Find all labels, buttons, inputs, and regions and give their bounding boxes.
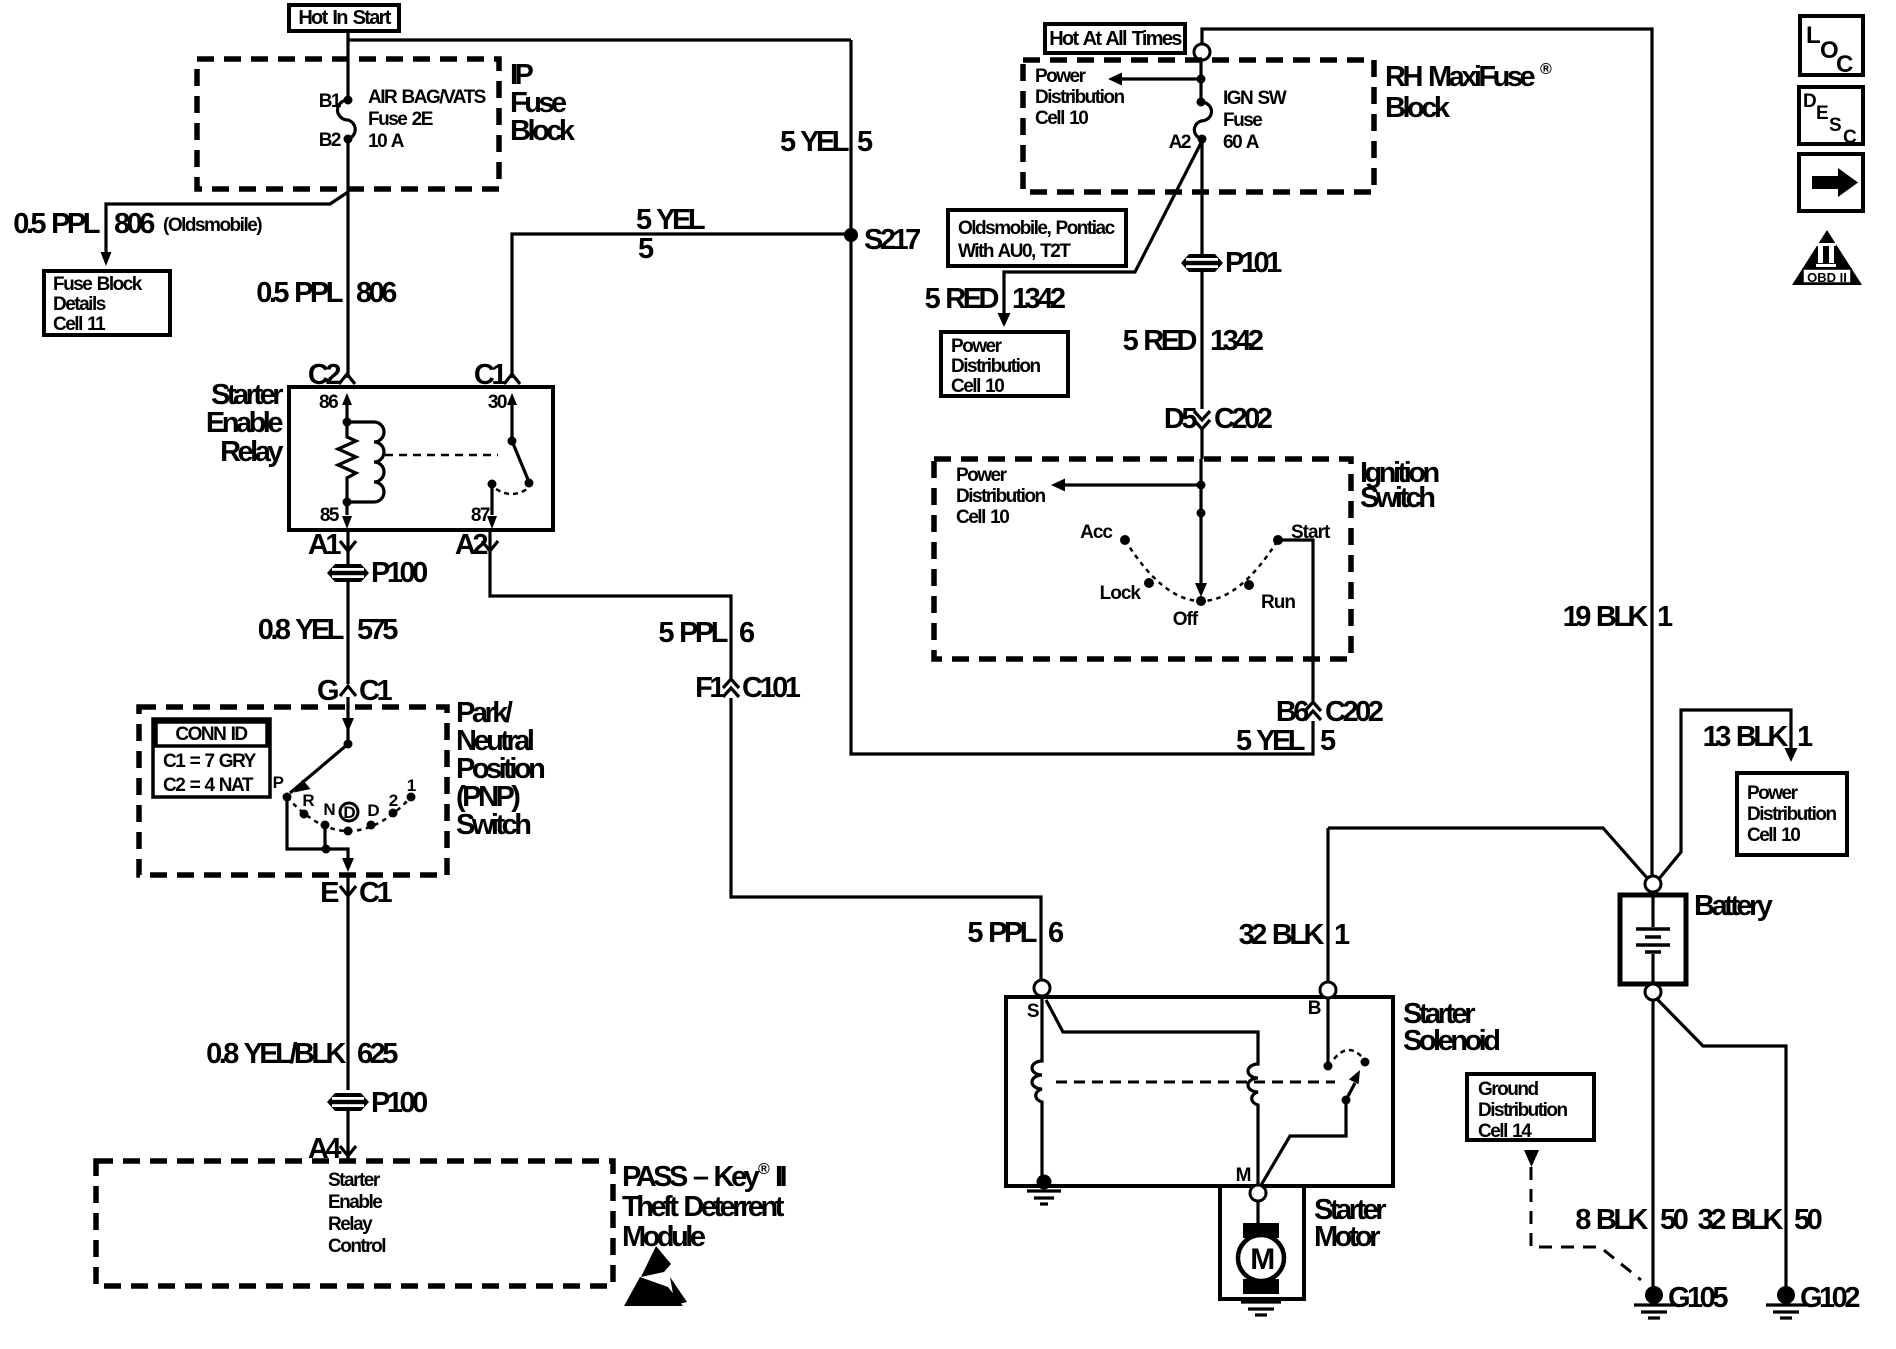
node Fuse Block Details Cell 11 box xyxy=(44,271,170,335)
relay pin 87 arrow xyxy=(471,480,497,530)
wire label 5 PPL 6 upper xyxy=(658,617,755,649)
wire arrow to power distribution (ignition) xyxy=(1051,479,1206,492)
terminal circle at maxifuse xyxy=(1194,44,1210,60)
relay coil xyxy=(347,422,384,502)
svg-text:OBD II: OBD II xyxy=(1807,270,1847,285)
svg-text:0.5 PPL: 0.5 PPL xyxy=(256,277,343,309)
label RH MaxiFuse Block xyxy=(1385,61,1552,124)
wire 5 YEL vertical drop to S217 xyxy=(849,40,852,235)
svg-text:Cell 11: Cell 11 xyxy=(53,314,106,335)
wire label 5 PPL 6 lower xyxy=(967,917,1064,949)
wire top horizontal Hot In Start to 5 YEL drop xyxy=(348,38,851,41)
label PASS-Key II Theft Deterrent Module xyxy=(622,1161,787,1253)
svg-text:C1: C1 xyxy=(359,877,392,909)
wire top right to 19 BLK drop xyxy=(1202,29,1652,876)
wire circle to IGN SW fuse xyxy=(1199,60,1202,102)
svg-text:5 YEL: 5 YEL xyxy=(1236,725,1305,757)
terminal M xyxy=(1236,1165,1266,1201)
icon LOC xyxy=(1800,16,1863,78)
svg-text:Starter: Starter xyxy=(328,1170,381,1191)
svg-text:85: 85 xyxy=(320,505,340,526)
svg-text:M: M xyxy=(1250,1243,1273,1276)
svg-text:S: S xyxy=(1829,115,1842,136)
svg-text:Battery: Battery xyxy=(1694,890,1773,922)
svg-text:IGN SW: IGN SW xyxy=(1223,88,1287,109)
label Starter Motor xyxy=(1314,1194,1386,1253)
svg-text:M: M xyxy=(1236,1165,1251,1186)
contact Acc xyxy=(1080,522,1130,545)
svg-text:13 BLK: 13 BLK xyxy=(1703,721,1789,753)
svg-text:Fuse Block: Fuse Block xyxy=(53,274,143,295)
svg-text:Distribution: Distribution xyxy=(1747,804,1836,825)
svg-text:Power: Power xyxy=(1747,783,1799,804)
svg-text:A1: A1 xyxy=(308,529,341,561)
svg-text:S217: S217 xyxy=(864,224,920,256)
wire 32 BLK solenoid B to battery xyxy=(1328,828,1648,879)
svg-text:D: D xyxy=(367,801,379,820)
svg-text:32 BLK: 32 BLK xyxy=(1239,919,1325,951)
svg-text:CONN ID: CONN ID xyxy=(175,724,247,745)
label Starter Solenoid xyxy=(1403,998,1499,1057)
relay dashed actuator link xyxy=(385,454,498,457)
terminal B xyxy=(1308,982,1336,1019)
wire label 5 YEL 5 horizontal xyxy=(636,204,705,265)
svg-text:0.5 PPL: 0.5 PPL xyxy=(13,208,100,240)
node Hot At All Times label box xyxy=(1045,24,1185,53)
svg-text:60 A: 60 A xyxy=(1223,132,1260,153)
node Ground Distribution Cell 14 box xyxy=(1467,1074,1594,1142)
Ignition switch dashed box xyxy=(934,459,1351,659)
svg-text:Hot In Start: Hot In Start xyxy=(298,7,391,29)
svg-text:Relay: Relay xyxy=(328,1214,373,1235)
contact Start xyxy=(1273,522,1331,545)
svg-text:G102: G102 xyxy=(1800,1282,1859,1314)
wire B2 down to relay C2 xyxy=(346,139,349,378)
svg-text:Cell 10: Cell 10 xyxy=(956,507,1009,528)
arrowhead 13 BLK xyxy=(1785,748,1798,762)
svg-text:5 YEL: 5 YEL xyxy=(636,204,705,236)
ground at solenoid coil xyxy=(1027,1191,1061,1204)
svg-text:Ground: Ground xyxy=(1478,1079,1538,1100)
wire label 5 YEL 5 (B6) xyxy=(1236,725,1336,757)
svg-text:C: C xyxy=(1836,51,1853,78)
svg-text:Power: Power xyxy=(1035,66,1087,87)
svg-text:50: 50 xyxy=(1660,1204,1688,1236)
PNP contact N xyxy=(321,800,336,830)
svg-text:Theft Deterrent: Theft Deterrent xyxy=(622,1191,785,1223)
svg-text:Solenoid: Solenoid xyxy=(1403,1025,1499,1057)
svg-text:30: 30 xyxy=(488,392,507,413)
svg-text:5 RED: 5 RED xyxy=(925,283,999,315)
ground at starter motor xyxy=(1241,1302,1281,1315)
label Park/Neutral Position (PNP) Switch xyxy=(456,697,544,841)
ESD symbol xyxy=(624,1246,687,1306)
label Starter Enable Relay Control xyxy=(328,1170,385,1257)
motor box xyxy=(1220,1186,1304,1299)
pin G C1 connector xyxy=(317,675,393,707)
svg-text:Lock: Lock xyxy=(1100,583,1142,604)
svg-text:P: P xyxy=(273,773,284,792)
wire A2 down right down to starter solenoid S xyxy=(490,530,1041,980)
svg-text:C1: C1 xyxy=(359,675,392,707)
svg-text:806: 806 xyxy=(114,208,155,240)
wire to A4 xyxy=(346,1110,349,1161)
value label IGN SW Fuse 60 A xyxy=(1223,88,1287,153)
connector F1 C101 xyxy=(695,672,801,704)
wire label 0.8 YEL/BLK 625 xyxy=(206,1038,398,1070)
PNP contact 2 xyxy=(389,791,398,818)
wire 13 BLK branch xyxy=(1658,710,1791,880)
svg-text:Control: Control xyxy=(328,1236,385,1257)
svg-text:Details: Details xyxy=(53,294,106,315)
svg-text:806: 806 xyxy=(356,277,397,309)
svg-text:Enable: Enable xyxy=(328,1192,382,1213)
svg-text:Power: Power xyxy=(951,336,1003,357)
svg-text:D: D xyxy=(1803,91,1817,112)
value label AIR BAG/VATS Fuse 2E 10 A xyxy=(368,87,486,152)
battery BAT1 xyxy=(1620,876,1686,1000)
PNP contact D xyxy=(367,801,380,830)
icon forward arrow xyxy=(1799,154,1863,211)
motor M xyxy=(1238,1201,1284,1294)
svg-text:575: 575 xyxy=(357,614,398,646)
wire label 19 BLK 1 xyxy=(1563,601,1673,633)
wire label 5 YEL 5 vertical top xyxy=(780,126,873,158)
svg-text:1: 1 xyxy=(407,776,416,795)
wire leader from A2 to 5 RED branch xyxy=(1004,141,1202,315)
svg-text:RH MaxiFuse: RH MaxiFuse xyxy=(1385,61,1535,93)
svg-text:Enable: Enable xyxy=(206,407,283,439)
icon OBD II triangle xyxy=(1792,230,1862,285)
wire label 0.8 YEL 575 xyxy=(258,614,399,646)
svg-text:PASS – Key: PASS – Key xyxy=(622,1161,760,1193)
pin A1 xyxy=(308,529,356,561)
svg-text:Relay: Relay xyxy=(220,436,283,468)
PNP switch arm wiper xyxy=(290,740,353,794)
dashed ground leader with arrowhead xyxy=(1524,1150,1641,1280)
svg-text:C101: C101 xyxy=(742,672,801,704)
wire label 5 RED 1342 xyxy=(1123,325,1263,357)
svg-text:®: ® xyxy=(1540,61,1552,78)
solenoid dashed plunger link xyxy=(1056,1081,1335,1084)
solenoid box xyxy=(1006,997,1393,1186)
wire label 0.5 PPL 806 xyxy=(256,277,397,309)
svg-text:32 BLK: 32 BLK xyxy=(1698,1204,1784,1236)
svg-text:S: S xyxy=(1027,1001,1039,1022)
ignition rotary contacts dashed arc xyxy=(1125,540,1278,601)
connector P100 upper xyxy=(327,557,427,589)
wire 5 RED 1342 down to D5 xyxy=(1200,271,1203,459)
solenoid switch arm with arrow xyxy=(1260,1070,1360,1187)
relay coil pin 86 arrow xyxy=(319,392,352,427)
svg-text:5 RED: 5 RED xyxy=(1123,325,1197,357)
svg-text:87: 87 xyxy=(471,505,490,526)
svg-text:G105: G105 xyxy=(1668,1282,1728,1314)
svg-text:8 BLK: 8 BLK xyxy=(1575,1204,1648,1236)
wire label 5 RED 1342 left xyxy=(925,283,1065,315)
svg-text:5 YEL: 5 YEL xyxy=(780,126,849,158)
wire label 32 BLK 50 xyxy=(1698,1204,1822,1236)
label Power Distribution Cell 10 (ignition) xyxy=(956,465,1045,528)
wire label 8 BLK 50 xyxy=(1575,1204,1687,1236)
relay pin 30 arrow xyxy=(488,392,517,446)
wire P contact to output xyxy=(287,797,354,872)
relay switch arm xyxy=(496,441,534,494)
wire arrow to power distribution xyxy=(1108,73,1206,86)
svg-text:Distribution: Distribution xyxy=(1478,1100,1567,1121)
wire 0.8 YEL 575 down to PNP G xyxy=(346,581,349,744)
svg-text:Run: Run xyxy=(1261,592,1295,613)
svg-text:B2: B2 xyxy=(319,130,341,151)
svg-text:19 BLK: 19 BLK xyxy=(1563,601,1649,633)
PNP contact R xyxy=(300,791,315,819)
wire S217 down and right to B6 xyxy=(851,235,1313,754)
pin C2 xyxy=(308,359,355,391)
svg-text:R: R xyxy=(302,791,314,810)
svg-text:C2: C2 xyxy=(308,359,340,391)
label Ignition Switch xyxy=(1360,457,1438,514)
svg-text:Cell 10: Cell 10 xyxy=(1035,108,1088,129)
PASS-Key module dashed box xyxy=(96,1161,613,1286)
svg-text:C1 = 7 GRY: C1 = 7 GRY xyxy=(163,751,257,772)
svg-text:Switch: Switch xyxy=(456,809,530,841)
svg-text:N: N xyxy=(323,800,335,819)
relay pin 85 arrow xyxy=(320,498,352,530)
svg-text:625: 625 xyxy=(357,1038,398,1070)
svg-text:Distribution: Distribution xyxy=(951,356,1040,377)
wire battery to G102 xyxy=(1656,998,1786,1287)
PNP dashed arc xyxy=(287,797,411,831)
svg-text:Module: Module xyxy=(622,1221,706,1253)
svg-text:Fuse 2E: Fuse 2E xyxy=(368,109,433,130)
svg-text:With AU0, T2T: With AU0, T2T xyxy=(958,241,1071,262)
node S217 junction xyxy=(844,224,920,256)
connector P100 lower xyxy=(327,1087,427,1119)
svg-text:G: G xyxy=(317,675,338,707)
svg-text:1342: 1342 xyxy=(1012,283,1065,315)
connector P101 xyxy=(1181,247,1282,279)
svg-text:D: D xyxy=(343,803,355,822)
svg-text:10 A: 10 A xyxy=(368,131,405,152)
contact Lock xyxy=(1100,578,1154,604)
svg-text:86: 86 xyxy=(319,392,338,413)
svg-text:Cell 10: Cell 10 xyxy=(951,376,1004,397)
svg-text:50: 50 xyxy=(1794,1204,1822,1236)
svg-text:5 PPL: 5 PPL xyxy=(658,617,727,649)
svg-text:C: C xyxy=(1843,127,1857,148)
svg-text:Off: Off xyxy=(1173,609,1199,630)
svg-text:AIR BAG/VATS: AIR BAG/VATS xyxy=(368,87,486,108)
contact Off xyxy=(1173,596,1206,630)
label Power Distribution Cell 10 (maxifuse) xyxy=(1035,66,1124,129)
svg-text:Acc: Acc xyxy=(1080,522,1113,543)
svg-text:P101: P101 xyxy=(1225,247,1282,279)
svg-text:B1: B1 xyxy=(319,91,342,112)
svg-text:0.8 YEL: 0.8 YEL xyxy=(258,614,344,646)
wire fuse A2 down to P101 xyxy=(1200,139,1203,254)
svg-text:C2 = 4 NAT: C2 = 4 NAT xyxy=(163,775,254,796)
svg-text:D5: D5 xyxy=(1164,403,1197,435)
svg-text:A2: A2 xyxy=(455,529,487,561)
svg-text:Start: Start xyxy=(1291,522,1331,543)
IP fuse block dashed box xyxy=(197,59,499,189)
svg-text:2: 2 xyxy=(389,791,398,810)
pin A4 xyxy=(308,1133,356,1165)
svg-text:Distribution: Distribution xyxy=(1035,87,1124,108)
solenoid contact from B xyxy=(1324,998,1370,1071)
node CONN ID box xyxy=(153,719,270,797)
svg-text:L: L xyxy=(1806,22,1821,49)
svg-text:0.8 YEL/BLK: 0.8 YEL/BLK xyxy=(206,1038,346,1070)
PNP contact P xyxy=(273,773,292,802)
terminal S xyxy=(1027,980,1050,1022)
pin E C1 connector xyxy=(320,877,392,909)
ground G105 xyxy=(1634,1282,1728,1318)
contact Run xyxy=(1244,580,1295,613)
svg-text:B: B xyxy=(1308,998,1321,1019)
svg-text:Cell 14: Cell 14 xyxy=(1478,1121,1532,1142)
wire battery to G105 xyxy=(1651,1000,1654,1287)
fuse IGN SW 60 A xyxy=(1194,98,1211,144)
svg-text:1342: 1342 xyxy=(1210,325,1263,357)
svg-text:C202: C202 xyxy=(1214,403,1272,435)
relay resistor xyxy=(338,422,356,502)
icon DESC xyxy=(1799,87,1863,148)
svg-text:Power: Power xyxy=(956,465,1008,486)
solenoid pull-in coil (left) xyxy=(1032,996,1052,1190)
svg-text:Distribution: Distribution xyxy=(956,486,1045,507)
relay U: Starter Enable Relay box xyxy=(289,387,553,530)
label IP Fuse Block xyxy=(510,59,576,147)
wire ignition feed down to Off xyxy=(1195,459,1207,597)
svg-text:B6: B6 xyxy=(1276,696,1309,728)
wire label 13 BLK 1 xyxy=(1703,721,1813,753)
node Power Distribution Cell 10 box (left) xyxy=(941,332,1068,397)
svg-text:Cell 10: Cell 10 xyxy=(1747,825,1800,846)
wire A1 down to P100 xyxy=(346,530,349,565)
wire branch 0.5 PPL (Oldsmobile) xyxy=(106,192,348,252)
pin A2 xyxy=(455,529,498,561)
svg-text:P100: P100 xyxy=(371,557,427,589)
solenoid hold-in coil (right) xyxy=(1046,1000,1258,1185)
svg-text:(Oldsmobile): (Oldsmobile) xyxy=(163,215,262,236)
svg-text:Switch: Switch xyxy=(1360,482,1434,514)
wire label 0.5 PPL 806 (Oldsmobile) xyxy=(13,208,262,240)
connector D5 C202 xyxy=(1164,403,1272,435)
node Oldsmobile Pontiac box xyxy=(948,210,1126,266)
svg-text:5 PPL: 5 PPL xyxy=(967,917,1036,949)
arrowhead into power distribution box xyxy=(998,313,1011,327)
svg-text:Block: Block xyxy=(510,115,576,147)
label Starter Enable Relay xyxy=(206,379,283,468)
svg-text:C1: C1 xyxy=(474,359,507,391)
svg-text:Hot At All Times: Hot At All Times xyxy=(1049,28,1182,50)
svg-text:C202: C202 xyxy=(1325,696,1383,728)
wire label 32 BLK 1 xyxy=(1239,919,1350,951)
RH MaxiFuse block dashed box xyxy=(1023,60,1374,192)
wire 5 YEL horizontal to relay C1 xyxy=(512,234,851,378)
svg-text:®: ® xyxy=(758,1161,770,1178)
PNP contact 1 xyxy=(407,776,416,802)
PNP entry arrow xyxy=(342,718,354,732)
arrowhead down to Fuse Block Details xyxy=(101,252,112,266)
PNP switch dashed box xyxy=(139,707,447,875)
wire 0.8 YEL/BLK 625 down xyxy=(346,875,349,1090)
pin C1 xyxy=(474,359,520,391)
svg-text:F1: F1 xyxy=(695,672,725,704)
fuse AIR BAG/VATS 2E xyxy=(338,96,356,144)
node Power Distribution Cell 10 box (right) xyxy=(1737,773,1847,855)
svg-text:P100: P100 xyxy=(371,1087,427,1119)
node Hot In Start label box xyxy=(289,5,399,31)
svg-text:Oldsmobile, Pontiac: Oldsmobile, Pontiac xyxy=(958,218,1116,239)
PNP contact D circled xyxy=(340,803,358,836)
svg-text:E: E xyxy=(1816,103,1829,124)
svg-text:Motor: Motor xyxy=(1314,1221,1380,1253)
connector B6 C202 xyxy=(1276,696,1383,728)
wire from Hot In Start down to fuse B1 xyxy=(346,31,349,100)
svg-text:A2: A2 xyxy=(1169,132,1191,153)
svg-text:Block: Block xyxy=(1385,92,1451,124)
ground G102 xyxy=(1766,1282,1859,1318)
svg-text:Fuse: Fuse xyxy=(1223,110,1262,131)
